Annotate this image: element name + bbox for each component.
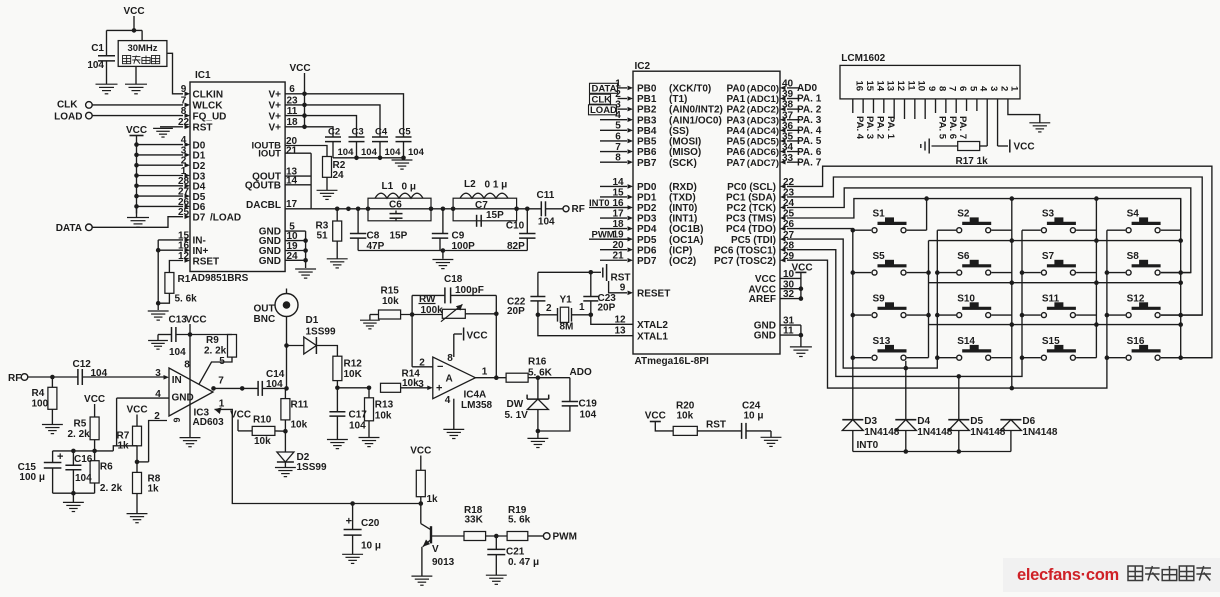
svg-text:(OC2): (OC2) bbox=[669, 256, 696, 267]
wire D4 column to S13 right pin bbox=[905, 361, 907, 420]
svg-text:PA. 7: PA. 7 bbox=[957, 116, 968, 139]
wire LOAD to FQ_UD bbox=[92, 115, 183, 117]
svg-text:S8: S8 bbox=[1127, 251, 1140, 262]
wire LM358 output to R16 bbox=[475, 377, 506, 379]
svg-text:(SS): (SS) bbox=[669, 126, 689, 137]
svg-text:RST: RST bbox=[611, 273, 631, 284]
svg-text:PD4: PD4 bbox=[637, 224, 657, 235]
wire V+ staircase to decoupling caps bbox=[305, 94, 404, 137]
svg-text:PA. 4: PA. 4 bbox=[854, 116, 865, 140]
svg-text:VCC: VCC bbox=[230, 410, 251, 421]
wire filter bottom bus bbox=[358, 250, 527, 252]
svg-text:4: 4 bbox=[445, 395, 451, 406]
svg-text:S7: S7 bbox=[1042, 251, 1055, 262]
svg-text:C19: C19 bbox=[579, 399, 598, 410]
svg-text:RSET: RSET bbox=[193, 256, 220, 267]
svg-text:(XCK/T0): (XCK/T0) bbox=[669, 84, 711, 95]
svg-text:3: 3 bbox=[155, 368, 161, 379]
wire R14 to LM358 +input bbox=[401, 387, 428, 389]
ground (C13) bbox=[157, 335, 159, 341]
capacitor C8 47P bbox=[357, 209, 359, 234]
svg-text:VCC: VCC bbox=[467, 331, 488, 342]
svg-text:10k: 10k bbox=[382, 296, 399, 307]
svg-text:IC4A: IC4A bbox=[464, 390, 487, 401]
wire keypad row4 rail bbox=[929, 324, 1181, 326]
diode D3 1N4148 bbox=[842, 419, 863, 421]
svg-text:Y1: Y1 bbox=[560, 295, 573, 306]
svg-text:(ADC4): (ADC4) bbox=[747, 126, 779, 137]
resistor R2 24 bbox=[323, 157, 332, 178]
svg-text:35: 35 bbox=[782, 132, 794, 143]
wire AD603 pin2 bbox=[149, 421, 167, 462]
svg-text:6: 6 bbox=[957, 86, 968, 91]
svg-text:3: 3 bbox=[988, 86, 999, 91]
net label DATA (IC2) bbox=[590, 83, 618, 93]
ground (oscillator) bbox=[125, 83, 147, 85]
svg-text:2. 2k: 2. 2k bbox=[68, 429, 91, 440]
wire D7 stub bbox=[92, 217, 183, 228]
ground (AD603) bbox=[180, 437, 201, 439]
svg-text:(ICP): (ICP) bbox=[669, 245, 692, 256]
svg-text:VCC: VCC bbox=[84, 394, 105, 405]
ground (LCM pin1) bbox=[1029, 122, 1050, 124]
svg-text:13: 13 bbox=[614, 326, 626, 337]
svg-text:RST: RST bbox=[706, 420, 726, 431]
wire R13 to ground bbox=[368, 421, 370, 438]
svg-text:104: 104 bbox=[349, 421, 366, 432]
wire LM358 -input to feedback rail bbox=[412, 366, 433, 368]
svg-text:16: 16 bbox=[854, 81, 865, 92]
svg-text:5. 6k: 5. 6k bbox=[175, 294, 198, 305]
svg-text:C6: C6 bbox=[389, 200, 402, 211]
resistor 1k (driver) bbox=[416, 470, 425, 496]
ground (C24) bbox=[761, 436, 782, 438]
svg-text:1: 1 bbox=[482, 367, 488, 378]
svg-text:+: + bbox=[436, 383, 442, 395]
svg-text:PC1 (SDA): PC1 (SDA) bbox=[726, 193, 776, 204]
svg-text:(MISO): (MISO) bbox=[669, 147, 701, 158]
svg-text:D3: D3 bbox=[864, 416, 877, 427]
wire R20 to C24 bbox=[697, 430, 741, 432]
wire LCM pin1 to ground bbox=[1008, 99, 1040, 123]
svg-text:C1: C1 bbox=[91, 43, 104, 54]
wire R15 to ground bbox=[370, 314, 379, 316]
capacitor C9 100P bbox=[442, 209, 444, 234]
svg-text:1N4148: 1N4148 bbox=[917, 427, 952, 438]
net RST tick bbox=[591, 271, 601, 273]
svg-text:(AIN0/INT2): (AIN0/INT2) bbox=[669, 105, 723, 116]
svg-text:PA3: PA3 bbox=[727, 115, 746, 126]
svg-text:C4: C4 bbox=[375, 127, 388, 138]
wire PC4 to keypad column1 bbox=[787, 229, 853, 420]
capacitor C22 20P bbox=[537, 272, 539, 296]
svg-text:C2: C2 bbox=[328, 127, 340, 138]
wire XTAL1 to IC2 bbox=[538, 315, 633, 336]
svg-text:11: 11 bbox=[905, 81, 916, 92]
svg-text:0 μ: 0 μ bbox=[402, 182, 416, 193]
svg-text:104: 104 bbox=[580, 410, 597, 421]
wire oscillator output to CLKIN pin 9 bbox=[167, 53, 183, 94]
ground (C20) bbox=[342, 553, 363, 555]
wire keypad right-pin vertical VB bbox=[928, 241, 930, 358]
wire IOUTB pin20 to R2 bbox=[285, 146, 327, 157]
svg-text:40: 40 bbox=[782, 79, 794, 90]
svg-text:(RXD): (RXD) bbox=[669, 182, 697, 193]
svg-text:−: − bbox=[437, 361, 443, 373]
wire C17 to ground bbox=[336, 416, 338, 439]
svg-text:IN: IN bbox=[172, 375, 182, 386]
resistor R1 5.6k bbox=[165, 273, 174, 294]
svg-text:IC2: IC2 bbox=[635, 61, 651, 72]
svg-text:AREF: AREF bbox=[749, 294, 776, 305]
power VCC (LCM) bbox=[1009, 140, 1011, 153]
wire RSET to R1 bbox=[169, 261, 183, 273]
svg-text:PA5: PA5 bbox=[727, 137, 746, 148]
svg-text:CLK: CLK bbox=[57, 99, 78, 110]
svg-text:PB4: PB4 bbox=[637, 126, 657, 137]
ground (R2) bbox=[317, 189, 338, 191]
svg-text:104: 104 bbox=[361, 147, 378, 158]
svg-text:2. 2k: 2. 2k bbox=[204, 346, 227, 357]
wire XTAL top rail bbox=[538, 271, 591, 273]
svg-text:10 μ: 10 μ bbox=[744, 411, 764, 422]
svg-text:PC5 (TDI): PC5 (TDI) bbox=[731, 235, 776, 246]
ground (R4) bbox=[42, 424, 63, 426]
svg-text:100: 100 bbox=[32, 399, 49, 410]
svg-text:PA6: PA6 bbox=[727, 147, 746, 158]
svg-text:PD0: PD0 bbox=[637, 182, 657, 193]
svg-text:VCC: VCC bbox=[126, 405, 147, 416]
svg-text:R1: R1 bbox=[178, 274, 191, 285]
svg-text:(INT1): (INT1) bbox=[669, 214, 697, 225]
svg-text:(OC1A): (OC1A) bbox=[669, 235, 703, 246]
svg-text:DW: DW bbox=[507, 399, 524, 410]
svg-text:(SCK): (SCK) bbox=[669, 158, 697, 169]
wire C12 to AD603 pin3 bbox=[82, 376, 165, 378]
svg-text:(ADC6): (ADC6) bbox=[747, 147, 779, 158]
svg-text:PA. 3: PA. 3 bbox=[864, 116, 875, 139]
svg-text:BNC: BNC bbox=[254, 314, 276, 325]
svg-text:PA. 2: PA. 2 bbox=[874, 116, 885, 139]
svg-text:10 μ: 10 μ bbox=[361, 541, 381, 552]
wire keypad right-pin vertical VG bbox=[1180, 199, 1182, 358]
svg-text:GND: GND bbox=[259, 256, 281, 267]
diode D5 1N4148 bbox=[948, 419, 969, 421]
svg-text:LCM1602: LCM1602 bbox=[841, 53, 885, 64]
wire C24 to ground bbox=[746, 430, 771, 432]
svg-text:100 μ: 100 μ bbox=[19, 472, 45, 483]
wire S12 stub to rail2 drop bbox=[1161, 314, 1202, 316]
svg-text:CLKIN: CLKIN bbox=[193, 90, 224, 101]
svg-text:3: 3 bbox=[418, 379, 424, 390]
svg-text:R12: R12 bbox=[344, 359, 363, 370]
wire RF to C12 and pin3 bbox=[28, 376, 78, 378]
svg-text:10k: 10k bbox=[677, 411, 694, 422]
svg-text:OUT: OUT bbox=[254, 304, 275, 315]
wire R1 to IN bus bbox=[158, 293, 169, 303]
wire S16 stub to rail1 drop bbox=[1161, 357, 1212, 359]
diode D4 1N4148 bbox=[895, 419, 916, 421]
svg-text:C13: C13 bbox=[169, 315, 188, 326]
resistor R4 100 bbox=[51, 377, 53, 387]
svg-text:PB3: PB3 bbox=[637, 115, 657, 126]
svg-text:DACBL: DACBL bbox=[246, 200, 281, 211]
wire 1k to base node bbox=[420, 497, 422, 504]
svg-text:VCC: VCC bbox=[185, 314, 206, 325]
svg-text:10k: 10k bbox=[291, 420, 308, 431]
svg-text:C5: C5 bbox=[399, 127, 412, 138]
svg-text:104: 104 bbox=[338, 147, 355, 158]
svg-text:PB5: PB5 bbox=[637, 137, 657, 148]
svg-text:R15: R15 bbox=[381, 286, 400, 297]
svg-text:PB1: PB1 bbox=[637, 94, 657, 105]
svg-text:VCC: VCC bbox=[126, 125, 147, 136]
svg-text:PD6: PD6 bbox=[637, 245, 657, 256]
svg-text:S5: S5 bbox=[873, 251, 886, 262]
svg-text:S2: S2 bbox=[957, 209, 970, 220]
svg-text:(T1): (T1) bbox=[669, 94, 687, 105]
wire R2 to ground bbox=[326, 177, 328, 190]
svg-text:C8: C8 bbox=[367, 230, 380, 241]
wire IN- IN+ bus bbox=[158, 239, 183, 241]
wire AD603 pin4 GND bbox=[117, 397, 169, 399]
svg-text:36: 36 bbox=[782, 121, 794, 132]
svg-text:V: V bbox=[432, 544, 439, 555]
svg-text:6: 6 bbox=[172, 418, 182, 423]
svg-text:R13: R13 bbox=[375, 400, 394, 411]
svg-text:S1: S1 bbox=[873, 209, 886, 220]
svg-text:C9: C9 bbox=[452, 230, 465, 241]
wire IOUT pin21 / DACBL to filter main line bbox=[285, 152, 311, 154]
svg-text:1SS99: 1SS99 bbox=[306, 327, 336, 338]
ground (C17) bbox=[327, 439, 348, 441]
svg-text:L2: L2 bbox=[464, 179, 476, 190]
wire C11 to RF out terminal bbox=[546, 208, 563, 210]
svg-text:C11: C11 bbox=[537, 190, 555, 201]
svg-text:QOUTB: QOUTB bbox=[245, 181, 281, 192]
svg-text:(ADC3): (ADC3) bbox=[747, 115, 779, 126]
svg-text:(ADC2): (ADC2) bbox=[747, 105, 779, 116]
ground (D bus) bbox=[136, 206, 138, 217]
wire LM358 pin4 to ground bbox=[453, 399, 455, 430]
wire XTAL2 to IC2 bbox=[591, 315, 633, 325]
wire AD603 pin1 AGC feedback bbox=[215, 409, 421, 503]
svg-text:PA. 1: PA. 1 bbox=[885, 116, 896, 140]
svg-text:PC3 (TMS): PC3 (TMS) bbox=[726, 214, 776, 225]
wire LCM pin3 to R17 bbox=[986, 99, 988, 146]
wire bottom bus (C15/C16/R6) bbox=[53, 492, 95, 494]
svg-text:C18: C18 bbox=[444, 274, 463, 285]
svg-text:34: 34 bbox=[782, 142, 794, 153]
svg-text:39: 39 bbox=[782, 89, 794, 100]
wire VCC/AVCC/AREF bus bbox=[800, 272, 802, 298]
wire VCC to C1 and oscillator bbox=[107, 29, 143, 31]
svg-text:1k: 1k bbox=[118, 441, 130, 452]
wire PC2 to keypad rail3 (S8 row) bbox=[787, 188, 1191, 273]
wire R17 to ground symbol bbox=[932, 145, 958, 147]
svg-text:PC7 (TOSC2): PC7 (TOSC2) bbox=[714, 256, 776, 267]
svg-text:(MOSI): (MOSI) bbox=[669, 137, 701, 148]
svg-text:R10: R10 bbox=[253, 415, 272, 426]
amplifier IC3 AD603 bbox=[169, 368, 213, 416]
wire R9 to AD603 pin5 bbox=[199, 357, 232, 384]
wire C14 to BNC vertical bbox=[262, 387, 286, 389]
ground (LM358) bbox=[443, 428, 464, 430]
svg-text:9013: 9013 bbox=[432, 557, 455, 568]
svg-text:1N4148: 1N4148 bbox=[970, 427, 1005, 438]
svg-text:(OC1B): (OC1B) bbox=[669, 224, 703, 235]
svg-text:2: 2 bbox=[546, 303, 552, 314]
svg-text:AD603: AD603 bbox=[193, 417, 225, 428]
wire emitter to ground bbox=[421, 547, 423, 576]
svg-text:15: 15 bbox=[864, 81, 875, 92]
svg-text:PC6 (TOSC1): PC6 (TOSC1) bbox=[714, 245, 776, 256]
svg-text:5. 6k: 5. 6k bbox=[508, 515, 531, 526]
ground (IC1 RST) bbox=[153, 127, 173, 129]
svg-text:FQ_UD: FQ_UD bbox=[193, 111, 227, 122]
wire keypad right-pin vertical VF bbox=[1095, 199, 1097, 358]
svg-text:PA. 5: PA. 5 bbox=[937, 116, 948, 140]
svg-text:PA2: PA2 bbox=[727, 105, 746, 116]
svg-text:30MHz: 30MHz bbox=[127, 43, 157, 54]
svg-text:S6: S6 bbox=[957, 251, 970, 262]
svg-text:DATA: DATA bbox=[56, 223, 82, 234]
svg-text:5. 6K: 5. 6K bbox=[528, 368, 553, 379]
wire BNC down to D1/C14 bbox=[286, 317, 288, 389]
svg-text:D4: D4 bbox=[917, 416, 930, 427]
ground (C21) bbox=[486, 574, 507, 576]
svg-text:PB0: PB0 bbox=[637, 84, 657, 95]
wire CLK to WLCK bbox=[92, 104, 183, 106]
svg-text:RST: RST bbox=[193, 123, 213, 134]
svg-text:10k: 10k bbox=[375, 411, 392, 422]
svg-text:8: 8 bbox=[936, 86, 947, 91]
svg-text:VCC: VCC bbox=[645, 411, 666, 422]
wire IC1 GND bus bbox=[305, 231, 307, 260]
wire base to R18 bbox=[431, 535, 464, 537]
svg-text:ADO: ADO bbox=[570, 367, 592, 378]
wire INT0 bus (diode anodes) bbox=[853, 451, 1011, 453]
wire R10 node bbox=[283, 429, 288, 434]
svg-text:1SS99: 1SS99 bbox=[297, 462, 327, 473]
svg-text:1: 1 bbox=[579, 302, 585, 313]
wire AD603 pin7 output to C14 bbox=[212, 387, 258, 389]
wire keypad row3 rail bbox=[929, 282, 1181, 284]
oscillator 30MHz box bbox=[118, 41, 167, 67]
svg-text:PA4: PA4 bbox=[727, 126, 746, 137]
wire PC3 to keypad row1 rail bbox=[787, 199, 1181, 231]
svg-text:9: 9 bbox=[926, 86, 937, 91]
svg-text:PA. 2: PA. 2 bbox=[797, 104, 822, 115]
svg-text:PD5: PD5 bbox=[637, 235, 657, 246]
svg-text:14: 14 bbox=[874, 81, 885, 92]
svg-text:+: + bbox=[346, 516, 352, 528]
svg-text:XTAL1: XTAL1 bbox=[637, 331, 668, 342]
svg-text:C3: C3 bbox=[352, 127, 364, 138]
svg-text:RESET: RESET bbox=[637, 289, 670, 300]
op-amp IC4A LM358 bbox=[433, 357, 476, 399]
svg-text:R5: R5 bbox=[74, 419, 87, 430]
svg-text:S4: S4 bbox=[1127, 209, 1140, 220]
svg-text:(TXD): (TXD) bbox=[669, 193, 696, 204]
terminal PWM bbox=[543, 533, 550, 540]
wire PC1 to keypad rail2 (S12 row) bbox=[787, 177, 1202, 315]
svg-text:0 1 μ: 0 1 μ bbox=[485, 180, 508, 191]
svg-text:8: 8 bbox=[447, 353, 453, 364]
resistor R7 1k bbox=[133, 426, 142, 446]
svg-text:PA. 7: PA. 7 bbox=[797, 157, 822, 168]
wire VCC vertical through AD603 to ground bbox=[189, 324, 191, 438]
svg-text:V+: V+ bbox=[268, 101, 281, 112]
wire GND bus to ground bbox=[800, 325, 802, 347]
svg-text:7: 7 bbox=[947, 86, 958, 91]
diode D6 1N4148 bbox=[1000, 419, 1021, 421]
svg-text:1k: 1k bbox=[148, 484, 160, 495]
svg-text:100pF: 100pF bbox=[455, 285, 484, 296]
svg-text:PB6: PB6 bbox=[637, 147, 657, 158]
net label LOAD (IC2) bbox=[589, 105, 617, 115]
svg-text:PD3: PD3 bbox=[637, 214, 657, 225]
svg-text:15P: 15P bbox=[486, 210, 504, 221]
svg-text:2: 2 bbox=[998, 86, 1009, 91]
svg-text:12: 12 bbox=[895, 81, 906, 92]
svg-text:+: + bbox=[57, 451, 63, 463]
svg-text:51: 51 bbox=[317, 231, 329, 242]
svg-text:10k: 10k bbox=[254, 436, 271, 447]
svg-text:104: 104 bbox=[169, 347, 186, 358]
svg-text:AD9851BRS: AD9851BRS bbox=[191, 273, 249, 284]
ground (D2) bbox=[275, 467, 296, 469]
svg-text:PD1: PD1 bbox=[637, 193, 657, 204]
wire C13 node bbox=[176, 334, 232, 336]
svg-text:S9: S9 bbox=[873, 294, 886, 305]
svg-text:LM358: LM358 bbox=[461, 400, 493, 411]
svg-text:PA. 6: PA. 6 bbox=[797, 147, 822, 158]
svg-text:PA. 4: PA. 4 bbox=[797, 126, 822, 137]
svg-text:(ADC1): (ADC1) bbox=[747, 94, 779, 105]
ground (C15 bus) bbox=[72, 493, 74, 502]
svg-text:82P: 82P bbox=[507, 241, 525, 252]
wire D0-D6 bus bbox=[136, 145, 138, 214]
ground (C1) bbox=[96, 83, 118, 85]
wire oscillator to ground bbox=[135, 66, 137, 84]
svg-text:C10: C10 bbox=[506, 221, 525, 232]
svg-text:CLK: CLK bbox=[592, 95, 612, 106]
resistor R8 1k bbox=[133, 472, 142, 493]
wire decoupling cap bus bbox=[333, 157, 404, 159]
wire R10 to R11 bottom bbox=[275, 430, 286, 432]
wire PC5 to keypad column2 via B1 bbox=[787, 230, 937, 368]
svg-text:RF: RF bbox=[8, 373, 21, 384]
wire keypad row2 rail bbox=[929, 240, 1181, 242]
svg-text:PA7: PA7 bbox=[727, 158, 746, 169]
MCU IC2 ATmega16 body bbox=[633, 71, 780, 354]
svg-text:5. 1V: 5. 1V bbox=[505, 410, 529, 421]
svg-text:21: 21 bbox=[286, 145, 298, 156]
wire LCM pin2 to VCC bbox=[997, 99, 999, 146]
wire D5 column bbox=[958, 376, 960, 419]
ground (R13) bbox=[359, 437, 380, 439]
resistor R11 10k bbox=[281, 399, 290, 420]
wire R19 to PWM terminal bbox=[528, 535, 544, 537]
wire R18 to R19 bbox=[486, 535, 508, 537]
svg-text:R17 1k: R17 1k bbox=[956, 156, 989, 167]
resistor R5 2.2k bbox=[90, 417, 99, 440]
svg-text:C12: C12 bbox=[73, 359, 92, 370]
svg-text:D7: D7 bbox=[193, 213, 206, 224]
svg-text:1N4148: 1N4148 bbox=[864, 427, 899, 438]
svg-text:GND: GND bbox=[754, 331, 776, 342]
